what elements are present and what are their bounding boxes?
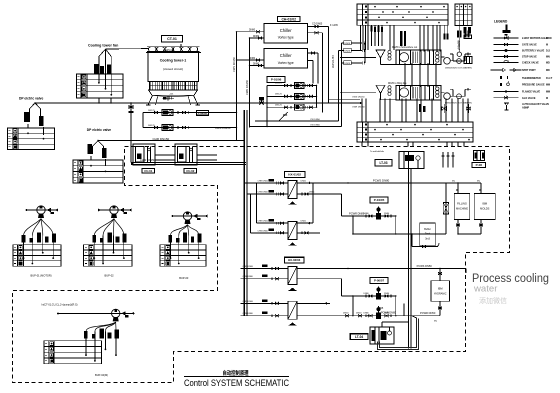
svg-text:DN80: DN80 — [249, 57, 256, 60]
svg-text:PCWS DN80: PCWS DN80 — [373, 179, 390, 183]
svg-text:添加微信: 添加微信 — [479, 296, 507, 305]
svg-text:自动控制原理: 自动控制原理 — [223, 369, 249, 377]
svg-text:LT-03: LT-03 — [379, 161, 387, 165]
svg-text:-101: -101 — [169, 94, 174, 96]
svg-text:CHR DN150: CHR DN150 — [153, 137, 170, 141]
svg-text:P-06/07: P-06/07 — [374, 279, 385, 283]
svg-text:D.S: D.S — [546, 50, 550, 53]
svg-text:MN: MN — [546, 56, 550, 59]
svg-text:DN40: DN40 — [356, 313, 362, 315]
svg-text:MM: MM — [546, 84, 550, 87]
svg-text:STOP VALVE: STOP VALVE — [522, 56, 537, 59]
svg-text:FILLING: FILLING — [457, 202, 467, 206]
svg-text:CWS DN150: CWS DN150 — [232, 57, 236, 72]
svg-text:DN25: DN25 — [345, 50, 351, 52]
svg-text:M: M — [546, 97, 548, 100]
svg-text:Chiller: Chiller — [280, 28, 292, 33]
svg-text:THERMOMETER: THERMOMETER — [522, 77, 541, 80]
svg-text:MOLDS: MOLDS — [480, 207, 489, 211]
svg-text:DN65: DN65 — [301, 221, 307, 223]
svg-text:MDN: MDN — [546, 37, 552, 40]
svg-text:To add defhilts: To add defhilts — [370, 150, 385, 153]
svg-text:Σ 1435: Σ 1435 — [330, 24, 338, 27]
svg-text:Cooling tower fan: Cooling tower fan — [88, 43, 118, 47]
svg-text:PCWR DN80: PCWR DN80 — [381, 312, 396, 315]
svg-text:Buffer: Buffer — [424, 228, 431, 231]
svg-text:DN25: DN25 — [345, 43, 351, 45]
svg-text:CW DN50: CW DN50 — [310, 125, 321, 127]
svg-text:DN25-C2: DN25-C2 — [163, 48, 174, 52]
svg-text:MD: MD — [546, 62, 550, 65]
svg-text:CHS DN80: CHS DN80 — [243, 313, 254, 315]
svg-text:PCWR DN80: PCWR DN80 — [349, 211, 365, 215]
svg-text:P-01/06: P-01/06 — [271, 77, 282, 81]
svg-text:2-WAY MOTORS GALE: 2-WAY MOTORS GALE — [522, 37, 548, 40]
svg-text:PCWR DN50: PCWR DN50 — [420, 311, 436, 315]
svg-text:GATE VALVE: GATE VALVE — [522, 44, 537, 47]
svg-text:CHS DN50: CHS DN50 — [258, 192, 269, 194]
svg-text:(closed circuit): (closed circuit) — [163, 67, 183, 71]
svg-text:DN65: DN65 — [309, 192, 315, 194]
svg-text:BUP-04(M): BUP-04(M) — [95, 373, 108, 377]
svg-text:CHS DN80: CHS DN80 — [243, 276, 254, 278]
svg-text:CHR DN80: CHR DN80 — [243, 266, 254, 268]
svg-text:DN80: DN80 — [364, 313, 370, 315]
svg-text:Tank: Tank — [425, 233, 431, 236]
svg-text:CHR DN80: CHR DN80 — [243, 301, 254, 303]
svg-text:CH-01/02: CH-01/02 — [281, 17, 296, 21]
svg-text:P05: P05 — [379, 307, 384, 310]
svg-text:DP elctric valve: DP elctric valve — [87, 128, 111, 132]
svg-text:DN80: DN80 — [384, 213, 390, 215]
svg-text:DP elctric valve: DP elctric valve — [19, 96, 43, 100]
svg-text:LT-04: LT-04 — [355, 335, 363, 339]
svg-text:DN25 to Somewhere out: DN25 to Somewhere out — [392, 46, 418, 49]
svg-text:In(CT-01,CU,CL,2+(pump))(R.S): In(CT-01,CU,CL,2+(pump))(R.S) — [41, 304, 77, 307]
svg-text:3m3: 3m3 — [425, 238, 430, 241]
svg-text:CW DN150: CW DN150 — [331, 55, 335, 69]
svg-text:BUP-01 (MOTOR): BUP-01 (MOTOR) — [31, 274, 52, 278]
svg-text:SPRT PORT: SPRT PORT — [522, 69, 536, 72]
svg-text:ABMP: ABMP — [522, 106, 529, 109]
svg-text:CWR DN150: CWR DN150 — [352, 106, 365, 108]
svg-text:IBM: IBM — [438, 287, 443, 291]
svg-text:P15: P15 — [283, 114, 288, 117]
svg-text:CWS DN150: CWS DN150 — [352, 97, 365, 99]
svg-text:DN125: DN125 — [275, 104, 283, 106]
svg-text:DN80: DN80 — [384, 293, 390, 295]
svg-text:P-08: P-08 — [476, 163, 483, 167]
svg-text:GLO VALVE: GLO VALVE — [522, 97, 536, 100]
svg-text:Vortex type: Vortex type — [278, 61, 294, 65]
svg-text:BUP-02: BUP-02 — [105, 274, 115, 278]
svg-text:P-04/05: P-04/05 — [374, 198, 385, 202]
svg-text:Control SYSTEM SCHEMATIC: Control SYSTEM SCHEMATIC — [184, 377, 289, 388]
svg-text:DN80/DN25 OUT (WATER): DN80/DN25 OUT (WATER) — [445, 66, 472, 69]
svg-text:HYDRANIC: HYDRANIC — [434, 293, 447, 296]
svg-text:Vortex type: Vortex type — [278, 36, 294, 40]
svg-text:DN125: DN125 — [275, 94, 283, 96]
svg-text:CU-02: CU-02 — [186, 169, 195, 173]
svg-text:CHR DN50: CHR DN50 — [258, 221, 269, 223]
svg-text:CW DN50: CW DN50 — [310, 119, 321, 121]
svg-text:MD: MD — [546, 69, 550, 72]
svg-text:MACHINE: MACHINE — [456, 207, 468, 211]
svg-text:CHECK VALVE: CHECK VALVE — [522, 62, 539, 65]
svg-text:PCWS DN50: PCWS DN50 — [417, 264, 433, 268]
svg-text:DN25: DN25 — [345, 63, 351, 65]
svg-text:Chiller: Chiller — [280, 53, 292, 58]
svg-text:water: water — [473, 284, 498, 295]
svg-text:DN80: DN80 — [249, 29, 256, 32]
svg-text:CHS DN150: CHS DN150 — [215, 126, 231, 130]
svg-text:Z-NaClO: Z-NaClO — [458, 40, 460, 49]
svg-text:DN25 to filling line: DN25 to filling line — [388, 82, 407, 85]
svg-text:M: M — [546, 44, 548, 47]
svg-text:DN80: DN80 — [364, 213, 370, 215]
svg-text:PRESSURE GAUGE: PRESSURE GAUGE — [522, 84, 545, 87]
svg-text:IBM: IBM — [482, 202, 487, 206]
svg-text:CU-01: CU-01 — [144, 169, 153, 173]
svg-text:DN65: DN65 — [301, 181, 307, 183]
svg-text:LEGEND: LEGEND — [494, 20, 508, 24]
svg-text:CHR DN50: CHR DN50 — [258, 181, 269, 183]
svg-text:DN80: DN80 — [364, 293, 370, 295]
svg-text:BUTTERFLY VALVE: BUTTERFLY VALVE — [522, 50, 545, 53]
svg-text:DN40: DN40 — [343, 313, 349, 315]
svg-text:HX-01/02: HX-01/02 — [288, 173, 301, 177]
svg-text:BUP-03: BUP-03 — [179, 276, 189, 280]
svg-text:HX-02/03: HX-02/03 — [288, 258, 301, 262]
svg-text:CWR DN150: CWR DN150 — [245, 79, 249, 95]
svg-text:CD DN65: CD DN65 — [312, 23, 323, 26]
svg-text:R A P: R A P — [546, 77, 553, 80]
svg-text:DN125: DN125 — [275, 83, 283, 85]
svg-text:MM: MM — [546, 91, 550, 94]
svg-text:CHS DN50: CHS DN50 — [258, 230, 269, 232]
svg-text:Cooling tower-1: Cooling tower-1 — [160, 59, 186, 63]
svg-text:FLANGE VALVE: FLANGE VALVE — [522, 91, 541, 94]
svg-text:CT-01: CT-01 — [167, 37, 177, 41]
